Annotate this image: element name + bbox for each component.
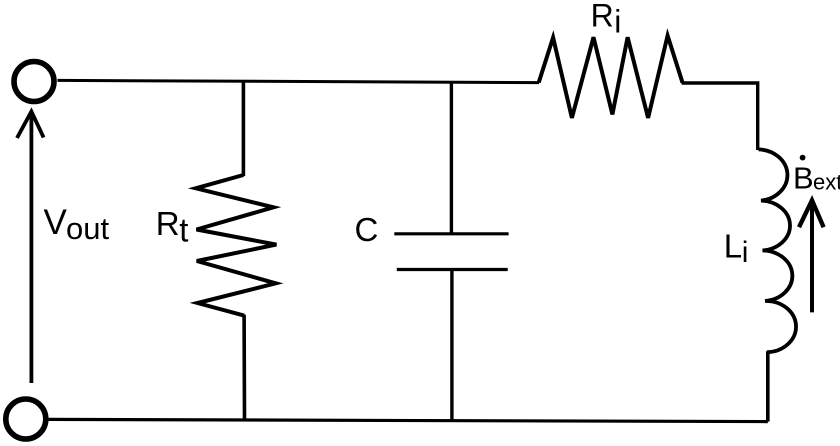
label Bext dot	[800, 155, 806, 161]
svg-text:t: t	[179, 212, 188, 249]
wire capacitor bottom stub	[450, 271, 453, 421]
svg-text:C: C	[355, 211, 379, 248]
svg-text:out: out	[66, 211, 109, 246]
svg-text:i: i	[742, 236, 749, 269]
wire bottom right corner	[766, 351, 770, 421]
resistor Ri	[539, 36, 683, 118]
capacitor C top plate	[394, 232, 508, 235]
svg-text:B: B	[793, 160, 814, 195]
inductor Li	[759, 149, 797, 352]
arrow Vout shaft	[29, 114, 33, 383]
resistor Rt	[196, 175, 277, 316]
wire Rt bottom stub	[242, 315, 246, 421]
capacitor C bottom plate	[397, 268, 508, 271]
wire top	[58, 80, 540, 82]
svg-text:R: R	[591, 0, 614, 33]
terminal circle bottom-left	[6, 399, 46, 439]
wire capacitor top stub	[450, 82, 453, 233]
arrow Bext shaft	[810, 203, 814, 312]
svg-text:ext: ext	[813, 169, 840, 194]
arrow Bext head	[799, 200, 824, 227]
svg-text:V: V	[44, 203, 68, 242]
svg-text:L: L	[724, 227, 742, 264]
wire top right corner	[682, 83, 758, 150]
wire Rt top stub	[242, 81, 246, 176]
svg-text:i: i	[614, 4, 621, 40]
svg-text:R: R	[156, 205, 180, 242]
wire bottom	[47, 419, 768, 421]
terminal circle top-left	[14, 62, 54, 102]
arrow Vout head	[17, 112, 44, 139]
